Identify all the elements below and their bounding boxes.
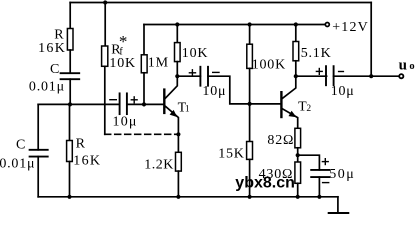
wire emitter node to 50u cap [298,155,320,170]
wire shunt R branch [69,104,71,140]
wire 100K branch top lead [249,25,251,45]
wire 50u cap to ground rail [318,177,320,197]
minus input cap [109,99,117,101]
minus output cap [338,71,344,73]
svg-text:C: C [16,138,25,153]
wire 5.1K to T2 collector node [295,61,297,76]
capacitor C 0.01u (series) [61,73,80,79]
transistor T1 collector stroke [165,76,177,98]
resistor 430ohm [295,162,301,183]
node Rf top on feedback rail [103,0,107,4]
svg-text:ybx8.cn: ybx8.cn [235,174,295,191]
wire bottom ground rail [38,196,338,198]
wire shunt C to ground rail [37,157,39,197]
svg-text:10K: 10K [182,46,209,61]
node T1 collector junction [175,74,179,78]
svg-text:u: u [399,57,407,73]
transistor T2 emitter stroke [283,109,298,129]
resistor 5.1K [293,42,299,61]
wire C to input node [69,79,71,104]
wire 1.2K to ground rail [177,171,179,197]
node 50u ground junction [317,195,321,199]
transistor T2 emitter arrow [289,111,297,118]
wire input node horizontal left segment [38,103,119,105]
svg-text:*: * [119,32,128,51]
node 5.1K top on +12V rail [294,22,298,26]
capacitor 50u bypass [311,170,329,177]
wire 1M bottom lead [143,73,145,105]
wire Rf bottom lead crossing input wire [104,66,106,134]
node 430ohm ground junction [296,195,300,199]
wire 100K to T2 base node [249,68,251,104]
wire 430ohm to ground rail [297,183,299,197]
svg-text:1.2K: 1.2K [144,157,174,172]
capacitor 10u interstage coupling [200,67,208,86]
resistor Rf* 10K [102,46,108,66]
resistor R (series 16K) [67,29,73,51]
node 1M bottom junction [142,102,146,106]
node 1.2K ground junction [176,195,180,199]
svg-text:50μ: 50μ [329,167,355,182]
capacitor C 0.01u (shunt) [30,150,48,157]
resistor 1M [141,55,147,73]
minus interstage cap [212,71,220,73]
terminal +12V [325,23,329,27]
svg-text:o: o [409,61,414,72]
resistor R (shunt 16K) [67,141,73,162]
svg-text:0.01μ: 0.01μ [29,80,65,95]
wire T1 emitter to 1.2K [177,134,179,152]
svg-text:15K: 15K [218,147,245,162]
wire series-RC branch top lead [69,3,71,29]
wire uo node to top rail [370,3,372,77]
svg-text:82Ω: 82Ω [267,133,294,148]
resistor 82ohm [295,128,301,148]
minus 50u cap [322,182,330,184]
transistor T2 base bar [280,92,282,117]
wire input cap to T1 base [127,103,163,105]
node 10K top on +12V rail [175,22,179,26]
wire 15K to ground rail [249,159,251,196]
svg-text:5.1K: 5.1K [301,46,332,61]
wire interstage cap to T2 base [208,76,280,104]
resistor 100K [247,44,253,68]
node T2 emitter junction [296,153,300,157]
wire Rf top lead [104,3,106,47]
plus input cap [131,96,138,103]
svg-text:10μ: 10μ [331,84,355,99]
svg-text:1M: 1M [148,56,169,71]
wire +12V rail [144,24,325,26]
wire 5.1K branch top lead [295,25,297,42]
node 15K ground junction [248,195,252,199]
node Wien input junction [68,102,72,106]
svg-text:C: C [50,62,59,77]
wire top feedback rail [70,2,371,4]
wire ground rail drop [337,197,339,212]
plus output cap [316,68,323,75]
transistor T1 emitter arrow [170,110,178,117]
svg-text:1: 1 [185,105,190,115]
svg-text:R: R [76,137,86,152]
ground [329,212,348,215]
node T2 collector junction [294,74,298,78]
svg-text:16K: 16K [73,154,101,169]
wire R to C [69,50,71,73]
label uo [399,57,415,73]
svg-text:10μ: 10μ [202,84,226,99]
wire shunt R to ground rail [69,162,71,197]
terminal uo [399,74,403,78]
plus 50u cap [322,158,329,165]
node shunt R ground junction [67,195,71,199]
node T1 emitter feedback junction [176,132,180,136]
wire 15K branch top lead [249,104,251,142]
resistor 1.2K [176,152,182,171]
capacitor 10u output coupling [326,66,334,85]
wire dashed feedback link [105,133,179,135]
label Rf* [111,32,127,57]
node T2 base junction [248,102,252,106]
plus interstage cap [189,69,197,76]
wire shunt C branch down [37,104,39,149]
wire uo node to terminal [371,75,399,77]
wire 82ohm to emitter node [297,148,299,162]
node junction dots [67,0,373,199]
resistor 10K (stage1 collector) [175,43,181,62]
wire 1M branch [143,25,145,55]
node output junction [369,74,373,78]
transistor T1 emitter stroke [165,106,178,134]
svg-text:0.01μ: 0.01μ [0,156,35,171]
svg-text:100K: 100K [252,58,286,73]
transistor T1 base bar [163,90,165,113]
label T2 [298,100,311,115]
svg-text:10μ: 10μ [113,114,138,129]
svg-text:2: 2 [306,104,311,114]
wire T1 collector to interstage cap [177,75,200,77]
transistor T2 collector stroke [283,76,296,98]
capacitor 10u input coupling [120,93,127,114]
wire 10K branch top lead [176,25,178,43]
wire T2 collector to output cap [296,75,327,77]
svg-text:10K: 10K [109,56,136,71]
svg-text:16K: 16K [38,41,66,56]
polarity signs [109,68,344,183]
node 100K top on +12V rail [248,22,252,26]
wire 10K to T1 collector node [176,62,178,77]
resistor 15K [247,142,253,160]
label T1 [178,101,190,116]
wire output cap to uo node [334,75,372,77]
svg-text:+12V: +12V [332,20,369,35]
